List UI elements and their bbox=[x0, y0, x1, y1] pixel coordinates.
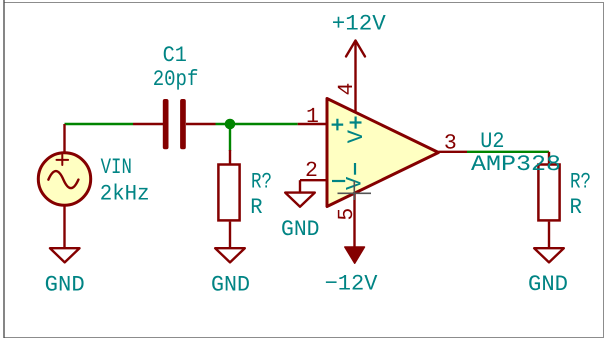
wire op-amp output pin 3 to right resistor (green segment) bbox=[467, 151, 549, 153]
right R? bottom pin bbox=[548, 222, 550, 249]
pin name V+ (pin 4, rotated) bbox=[344, 117, 369, 144]
svg-text:GND: GND bbox=[281, 217, 320, 242]
pin name V- (pin 5, rotated) bbox=[343, 163, 368, 190]
svg-text:20pf: 20pf bbox=[153, 67, 199, 92]
resistor R? (middle) bbox=[218, 150, 239, 248]
wire pin2 elbow down to ground bbox=[299, 180, 301, 192]
right R? top pin bbox=[548, 152, 550, 165]
right R? body bbox=[538, 165, 559, 221]
pin 2 line (inverting input) bbox=[300, 179, 327, 181]
ground symbol at pin 2 bbox=[285, 193, 315, 207]
svg-text:R: R bbox=[570, 195, 582, 220]
label VIN bbox=[101, 155, 132, 180]
pin 1 line (non-inverting input) bbox=[298, 123, 327, 125]
svg-text:R?: R? bbox=[251, 170, 272, 195]
voltage source VIN bbox=[38, 124, 90, 248]
C1 right pin bbox=[186, 123, 216, 125]
label GND under right resistor bbox=[528, 272, 568, 297]
svg-text:1: 1 bbox=[306, 105, 319, 129]
R? body bbox=[218, 165, 239, 221]
C1 left pin bbox=[133, 123, 163, 125]
svg-text:R?: R? bbox=[570, 170, 591, 195]
wire VIN top to C1 left (green segment) bbox=[65, 123, 134, 125]
pin number 2 bbox=[305, 159, 318, 183]
svg-text:V: V bbox=[344, 129, 369, 143]
svg-text:C1: C1 bbox=[163, 43, 187, 68]
svg-text:V: V bbox=[343, 176, 368, 190]
svg-text:U2: U2 bbox=[480, 129, 504, 154]
svg-text:AMP328: AMP328 bbox=[471, 152, 561, 177]
resistor R? (right) bbox=[538, 152, 559, 248]
VIN body circle bbox=[38, 153, 90, 205]
label R (middle) bbox=[250, 195, 262, 220]
ground symbol under middle resistor bbox=[215, 248, 245, 262]
C1 right plate bbox=[180, 99, 186, 149]
label R (right) bbox=[570, 195, 582, 220]
pin number 4 (rotated) bbox=[335, 83, 359, 96]
svg-text:GND: GND bbox=[45, 273, 85, 298]
svg-text:VIN: VIN bbox=[101, 155, 132, 180]
R? bottom pin bbox=[229, 222, 231, 249]
capacitor C1 bbox=[133, 99, 216, 149]
label U2 bbox=[480, 129, 504, 154]
svg-text:GND: GND bbox=[528, 272, 568, 297]
pin number 3 bbox=[444, 131, 457, 155]
label GND under VIN bbox=[45, 273, 85, 298]
wire junction down to resistor R? (green segment) bbox=[229, 124, 231, 151]
label -12V bbox=[325, 272, 379, 297]
label 2kHz bbox=[100, 182, 150, 207]
label R? (middle) bbox=[251, 170, 272, 195]
svg-text:−12V: −12V bbox=[325, 272, 379, 297]
pin name - (pin 2) bbox=[332, 180, 345, 182]
C1 left plate bbox=[163, 99, 169, 149]
label GND under middle resistor bbox=[211, 273, 250, 298]
svg-text:5: 5 bbox=[335, 208, 359, 221]
op-amp U2 bbox=[327, 99, 439, 207]
VIN sine wave bbox=[48, 171, 78, 188]
pin name + (pin 1) bbox=[332, 119, 344, 131]
label +12V bbox=[332, 11, 387, 36]
power symbol +12V (open arrow) bbox=[346, 41, 365, 57]
VIN pin up bbox=[63, 124, 65, 153]
junction node (green dot) bbox=[225, 119, 236, 130]
VIN plus sign bbox=[57, 155, 69, 165]
pin number 5 (rotated) bbox=[335, 208, 359, 221]
U2 triangle body bbox=[327, 99, 439, 207]
svg-text:+12V: +12V bbox=[332, 11, 387, 36]
svg-text:4: 4 bbox=[335, 83, 359, 96]
pin 5 line (V- power, vertical) bbox=[353, 193, 355, 248]
svg-text:3: 3 bbox=[444, 131, 457, 155]
svg-text:GND: GND bbox=[211, 273, 250, 298]
power symbol -12V (filled arrow) bbox=[345, 247, 365, 263]
svg-text:R: R bbox=[250, 195, 262, 220]
label 20pf bbox=[153, 67, 199, 92]
label C1 bbox=[163, 43, 187, 68]
svg-text:2: 2 bbox=[305, 159, 318, 183]
R? top pin bbox=[229, 150, 231, 165]
pin number 1 bbox=[306, 105, 319, 129]
label R? (right) bbox=[570, 170, 591, 195]
label GND at pin 2 bbox=[281, 217, 320, 242]
wire C1 right to op-amp pin 1 (green segment) bbox=[216, 123, 298, 125]
ground symbol under right resistor bbox=[534, 248, 564, 262]
pin 3 line (output) bbox=[439, 151, 468, 153]
label AMP328 bbox=[471, 152, 561, 177]
ground symbol under VIN bbox=[50, 248, 80, 262]
pin 4 line (V+ power, vertical) bbox=[354, 41, 356, 113]
gray tick cross at pin 5 base bbox=[338, 181, 372, 200]
svg-text:2kHz: 2kHz bbox=[100, 182, 150, 207]
VIN pin down bbox=[63, 205, 65, 248]
